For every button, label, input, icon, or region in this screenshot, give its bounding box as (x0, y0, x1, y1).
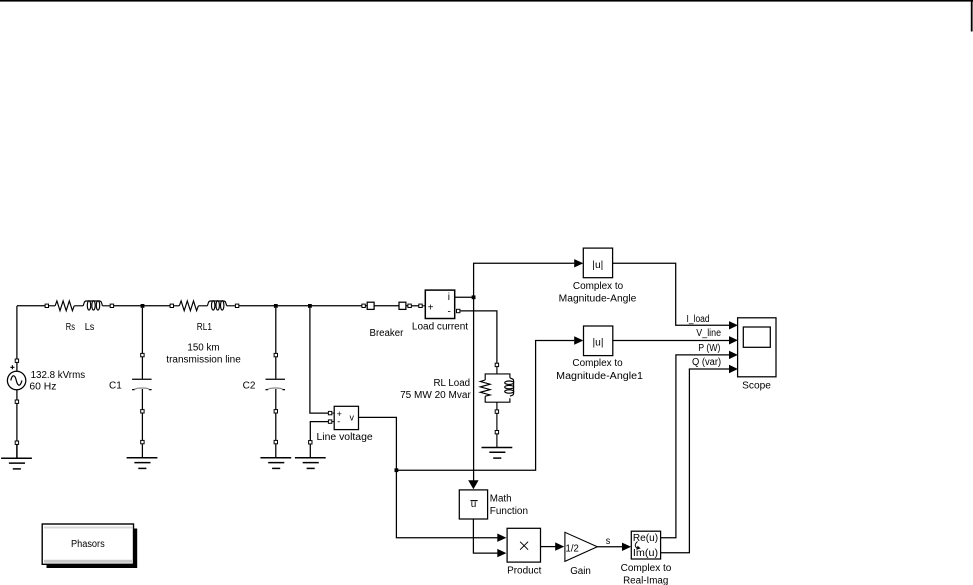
svg-text:150 km: 150 km (187, 342, 219, 353)
port square source top (15, 359, 18, 362)
block Product (507, 528, 540, 562)
series branch Rs Ls (49, 301, 111, 311)
port square C1 top (141, 353, 144, 356)
gain block Gain 1/2 (565, 532, 597, 561)
svg-text:s: s (606, 536, 611, 547)
wire: Re(u) out to scope P (661, 355, 731, 538)
svg-text:Function: Function (490, 506, 528, 517)
svg-text:C1: C1 (109, 380, 122, 391)
arrowhead into Product input 1 (497, 534, 506, 542)
port square C2 ground (274, 440, 277, 443)
svg-text:Ls: Ls (85, 322, 95, 333)
svg-text:Complex to: Complex to (621, 563, 672, 574)
svg-text:|u|: |u| (593, 338, 604, 349)
wire: CMA1 out to scope V_line (613, 340, 731, 342)
svg-text:Rs: Rs (66, 322, 75, 333)
block Complex to Real-Imag (631, 531, 660, 559)
arrowhead into Complex to Magnitude-Angle (574, 259, 583, 267)
block Complex to Magnitude-Angle (583, 248, 612, 278)
wire: breaker to Load current (411, 305, 419, 307)
wire: Ls to RL1 (114, 305, 171, 307)
svg-text:Complex to: Complex to (573, 281, 624, 292)
junction node C2 (274, 304, 278, 308)
label RL Load 75 MW 20 Mvar (400, 378, 471, 401)
wire: Math Function out to Product input 2 (473, 519, 497, 553)
wire: RL1 to breaker (239, 305, 362, 307)
AC voltage source U1 132.8 kVrms 60 Hz (7, 306, 25, 441)
voltage measurement block Line voltage (328, 406, 358, 429)
port square RL1 left (170, 304, 173, 307)
arrowhead into CMA1 (574, 336, 583, 344)
svg-text:Phasors: Phasors (71, 539, 105, 550)
svg-text:Real-Imag: Real-Imag (623, 575, 668, 585)
port square RL Load ground (495, 431, 498, 434)
wire: Product out to Gain (541, 546, 557, 548)
wire: Line voltage v out, down, to CMA1 and Product (359, 341, 575, 538)
svg-text:V_line: V_line (696, 328, 721, 339)
wire: minus output to RL Load (460, 311, 497, 363)
label RL1 150 km transmission line (166, 322, 241, 366)
series branch RL1 (174, 301, 236, 311)
port square C2 top (274, 353, 277, 356)
arrowhead scope input 2 (729, 336, 738, 344)
button Phasors (42, 524, 137, 568)
svg-text:Complex to: Complex to (572, 358, 623, 369)
svg-text:transmission line: transmission line (166, 355, 241, 366)
svg-text:75 MW 20 Mvar: 75 MW 20 Mvar (400, 390, 471, 401)
svg-text:Gain: Gain (570, 566, 591, 577)
svg-text:60 Hz: 60 Hz (29, 382, 56, 393)
svg-text:RL1: RL1 (197, 322, 213, 333)
label Rs Ls (66, 322, 95, 333)
wire: source to Rs (17, 305, 45, 307)
wire: tap down to Line voltage + (310, 308, 329, 413)
svg-text:Product: Product (507, 565, 542, 576)
parallel branch RL Load (480, 367, 513, 448)
label Complex to Magnitude-Angle1 (556, 358, 643, 382)
arrowhead into Product input 2 (497, 549, 506, 557)
window right border segment (971, 0, 973, 32)
block Complex to Magnitude-Angle1 (584, 326, 613, 356)
port square LV minus ground (309, 441, 312, 444)
arrowhead into Complex to Real-Imag (622, 543, 631, 551)
svg-text:C2: C2 (243, 380, 256, 391)
port square C1 ground (141, 440, 144, 443)
svg-text:Scope: Scope (742, 381, 771, 392)
junction node i (472, 295, 476, 299)
port square RL Load bottom (495, 410, 498, 413)
svg-text:u: u (471, 499, 477, 510)
capacitor C1 branch (132, 308, 152, 458)
svg-text:+: + (428, 302, 434, 313)
wire: i output to junction, up to CMA, down to Math Function (455, 263, 575, 480)
port square ground G1 (15, 441, 18, 444)
arrowhead scope input 1 (729, 321, 738, 329)
port square C1 bottom (141, 410, 144, 413)
window top border (0, 0, 973, 2)
current measurement block Load current (419, 290, 460, 318)
wire: CMA out to scope I_load (613, 263, 731, 325)
svg-text:v: v (350, 413, 355, 423)
label Complex to Magnitude-Angle (559, 281, 637, 305)
svg-text:Magnitude-Angle1: Magnitude-Angle1 (556, 371, 643, 382)
junction node line-voltage tap (308, 304, 312, 308)
ground G2 (under C1) (127, 458, 158, 469)
svg-text:Line voltage: Line voltage (317, 432, 374, 443)
arrowhead into Gain (555, 542, 564, 550)
svg-text:Load current: Load current (412, 321, 468, 332)
svg-text:-: - (448, 307, 451, 318)
wire: Gain out to Complex to Real-Imag (597, 546, 623, 548)
arrowhead scope input 4 (729, 365, 738, 373)
svg-text:132.8 kVrms: 132.8 kVrms (31, 370, 86, 381)
wire: Line voltage - to ground (310, 422, 328, 458)
svg-text:RL Load: RL Load (434, 378, 471, 389)
port square source bottom (15, 400, 18, 403)
ground G3 (under C2) (260, 458, 291, 469)
label Complex to Real-Imag (621, 563, 672, 585)
svg-text:P (W): P (W) (698, 343, 720, 354)
ground G4 (under Line voltage) (295, 458, 326, 469)
wire: Im(u) out to scope Q (661, 369, 731, 553)
svg-text:i: i (448, 292, 450, 303)
svg-text:-: - (337, 417, 340, 427)
svg-text:Breaker: Breaker (370, 328, 404, 339)
svg-text:Q (var): Q (var) (692, 357, 721, 368)
arrowhead into Math Function (468, 480, 478, 489)
svg-text:|u|: |u| (592, 260, 603, 271)
junction node V (395, 468, 399, 472)
arrowhead scope input 3 (729, 351, 738, 359)
port square Ls right (110, 304, 113, 307)
capacitor C2 branch (266, 308, 286, 458)
port square Rs left (45, 304, 48, 307)
junction node C1 (141, 304, 145, 308)
value label 132.8 kVrms 60 Hz (29, 370, 85, 393)
port square RL1 right (235, 304, 238, 307)
ground G5 (under RL Load) (482, 448, 513, 459)
port square C2 bottom (274, 410, 277, 413)
svg-text:Magnitude-Angle: Magnitude-Angle (559, 294, 637, 305)
svg-text:I_load: I_load (687, 314, 710, 325)
scope block Scope (738, 318, 776, 377)
port square RL Load top (495, 363, 498, 366)
label Math Function (490, 493, 528, 516)
svg-text:Math: Math (490, 493, 512, 504)
svg-text:1/2: 1/2 (566, 544, 580, 555)
breaker block Breaker (362, 302, 411, 309)
ground G1 (under source) (1, 444, 32, 469)
block Math Function (459, 490, 487, 519)
